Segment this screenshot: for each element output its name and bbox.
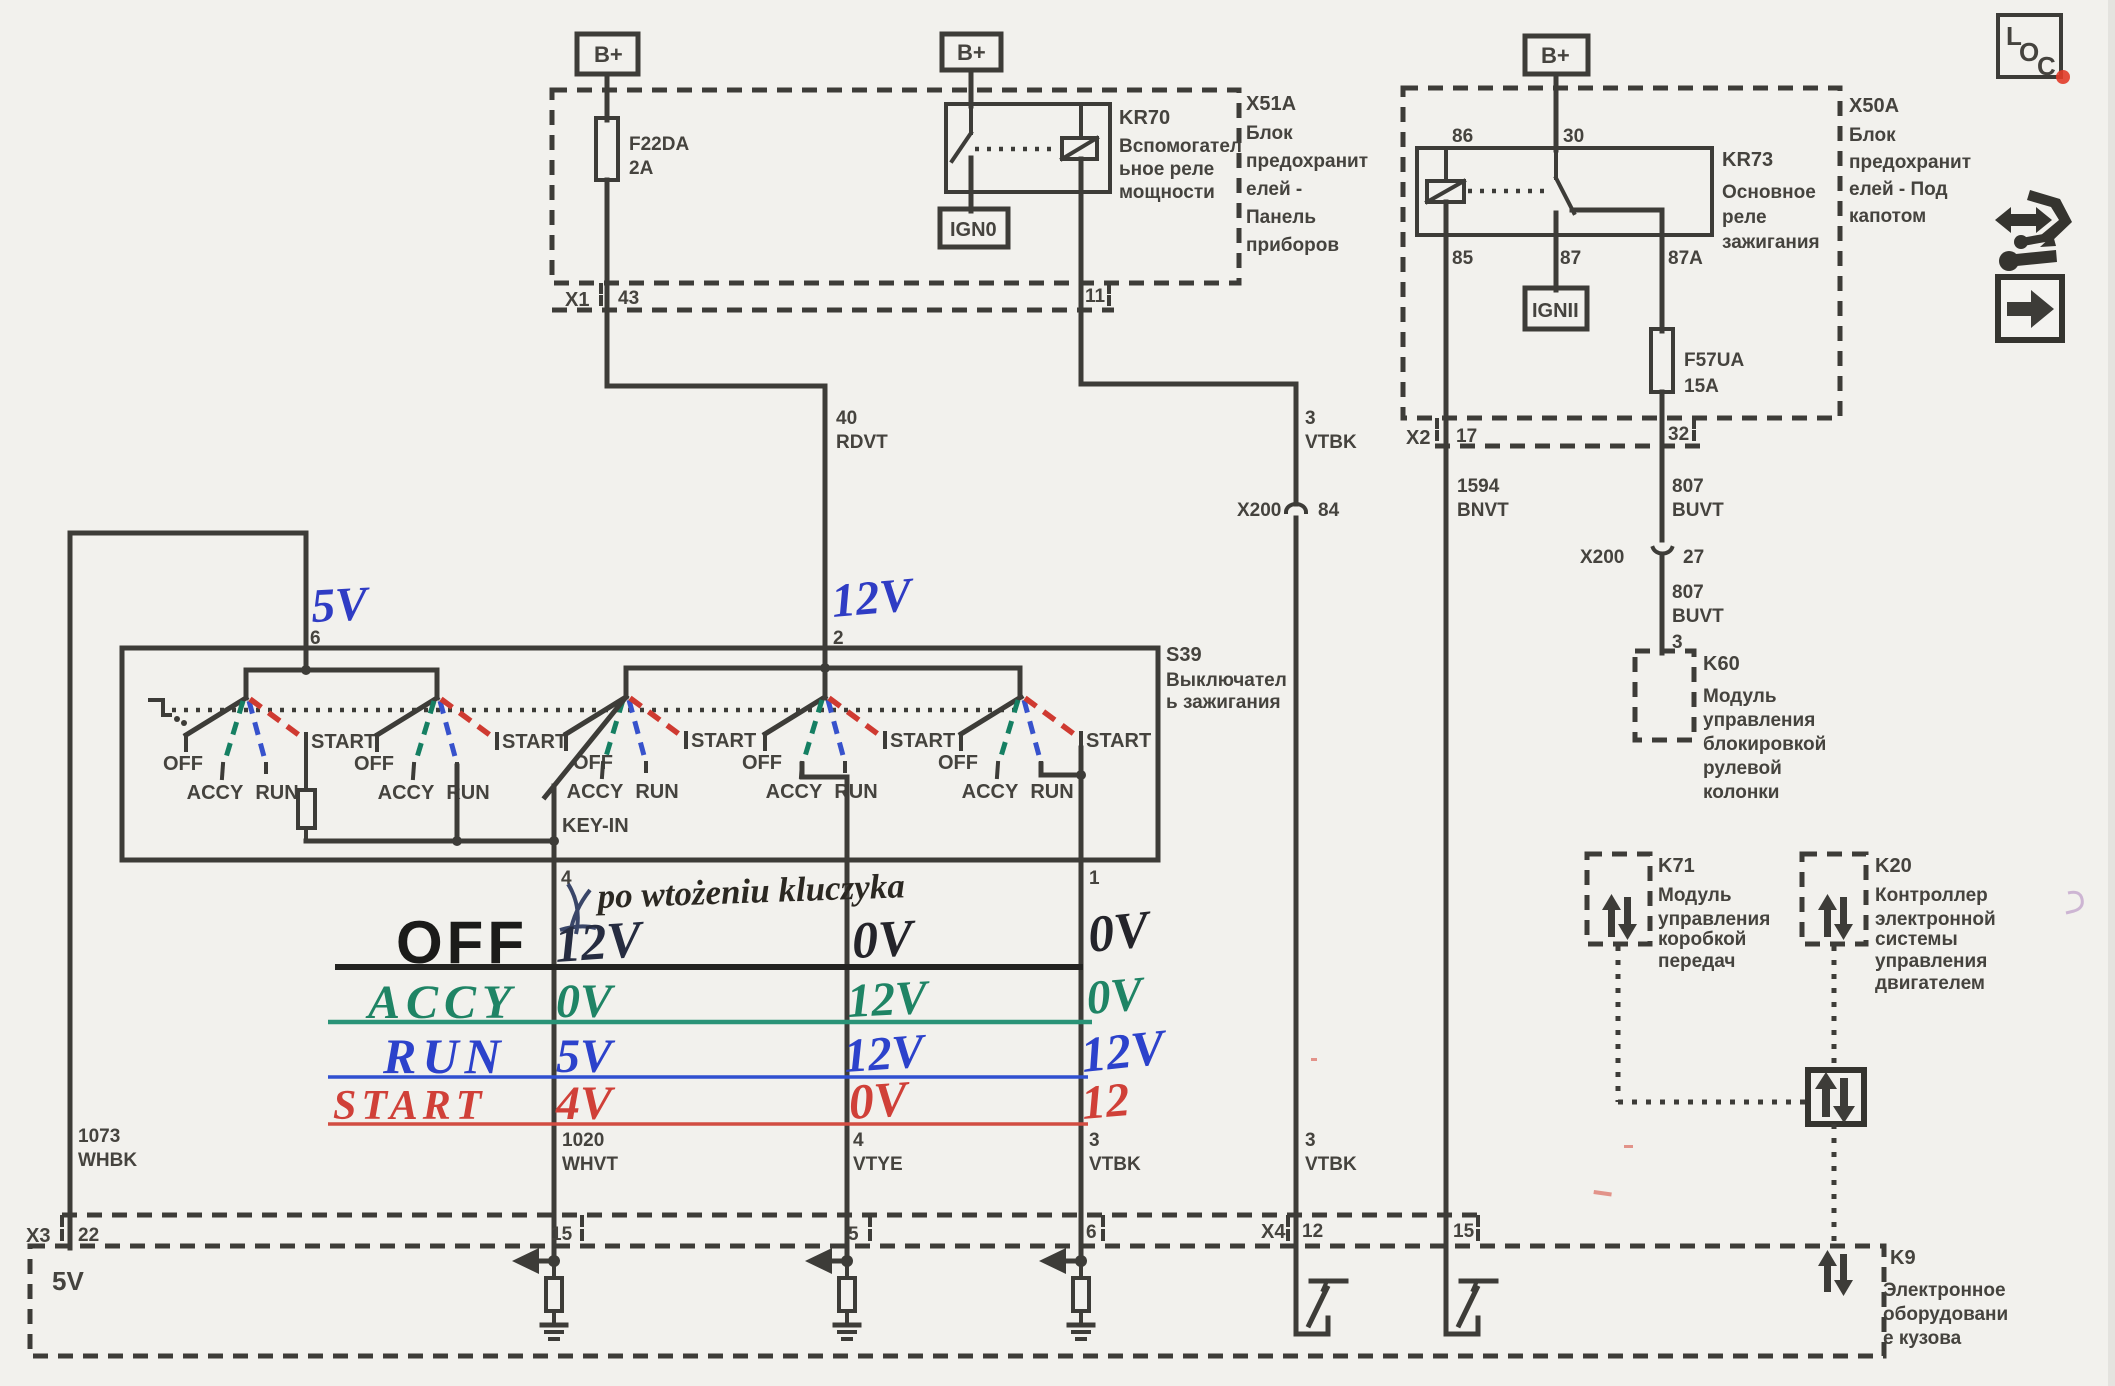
fuse block X50A (dashed enclosure) xyxy=(1403,88,1840,418)
svg-text:Вспомогател: Вспомогател xyxy=(1119,136,1242,157)
net label 1594 BNVT xyxy=(1457,476,1509,521)
fuse F57UA 15A xyxy=(1651,329,1744,397)
S39 contact START (red dashed) xyxy=(630,698,683,737)
net label 3 VTBK xyxy=(1305,408,1357,453)
power symbol B+ (feeds relay KR73) xyxy=(1525,36,1588,74)
svg-text:F22DA: F22DA xyxy=(629,134,689,155)
module K71 transmission control module (dashed box) xyxy=(1587,854,1770,972)
svg-text:RUN: RUN xyxy=(635,781,678,803)
svg-text:KR70: KR70 xyxy=(1119,107,1170,129)
connector X1 (dashed row) xyxy=(552,285,1114,311)
svg-text:0V: 0V xyxy=(1084,967,1148,1025)
svg-text:VTBK: VTBK xyxy=(1305,1154,1357,1175)
svg-text:15A: 15A xyxy=(1684,376,1719,397)
svg-text:START: START xyxy=(502,731,567,753)
svg-text:15: 15 xyxy=(1453,1221,1475,1242)
svg-text:0V: 0V xyxy=(847,1070,913,1130)
table row line OFF (black) xyxy=(335,964,1083,970)
table row line ACCY (green) xyxy=(328,1020,1092,1025)
svg-text:Электронное: Электронное xyxy=(1883,1280,2006,1301)
svg-text:11: 11 xyxy=(1085,286,1106,307)
svg-text:87: 87 xyxy=(1560,248,1581,269)
table row line RUN (blue) xyxy=(328,1075,1088,1079)
S39 wiper contact OFF (pivot x=437) xyxy=(377,698,437,735)
svg-text:ACCY: ACCY xyxy=(187,782,244,804)
svg-text:4V: 4V xyxy=(555,1077,616,1130)
wire S39 pin 6 up and left to connector X3 pin 22 (net 1073 WHBK / 5V) xyxy=(70,533,306,1248)
svg-text:B+: B+ xyxy=(957,40,986,65)
dotted data link K20 down xyxy=(1832,946,1837,1068)
svg-text:12: 12 xyxy=(1302,1221,1323,1242)
svg-text:B+: B+ xyxy=(594,42,623,67)
net label 40 RDVT xyxy=(836,408,888,453)
svg-text:елей -: елей - xyxy=(1246,179,1302,200)
svg-text:реле: реле xyxy=(1722,207,1767,228)
connector X2 (dashed row) xyxy=(1406,420,1700,449)
svg-text:0V: 0V xyxy=(851,910,919,970)
svg-text:START: START xyxy=(333,1083,486,1129)
svg-text:X4: X4 xyxy=(1261,1221,1286,1243)
data gateway box with arrows xyxy=(1808,1070,1864,1124)
wire pole 4 output down to S39 pin (net 4 VTYE) xyxy=(845,777,850,1262)
svg-text:X2: X2 xyxy=(1406,427,1430,449)
bracket tick X4-15 xyxy=(1476,1217,1480,1244)
svg-text:1020: 1020 xyxy=(562,1130,604,1151)
svg-text:RUN: RUN xyxy=(255,782,298,804)
junction pin6 feed xyxy=(301,665,311,675)
wire B+ to KR73 pin 30 xyxy=(1554,74,1559,150)
S39 contact ACCY (green dashed) xyxy=(415,701,434,764)
svg-text:Блок: Блок xyxy=(1246,123,1293,144)
power symbol B+ (feeds fuse F22DA) xyxy=(577,34,638,74)
svg-text:капотом: капотом xyxy=(1849,206,1926,227)
svg-text:F57UA: F57UA xyxy=(1684,350,1744,371)
svg-text:17: 17 xyxy=(1456,426,1477,447)
module K20 engine control module (dashed box) xyxy=(1802,854,1996,994)
net label 807 BUVT xyxy=(1672,476,1724,521)
switch to ground (K9 internal) at x=1446 xyxy=(1446,1248,1478,1334)
svg-text:BUVT: BUVT xyxy=(1672,500,1724,521)
net label 3 VTBK (S39 pin1 wire) xyxy=(1089,1130,1141,1175)
svg-text:12V: 12V xyxy=(846,971,933,1028)
svg-text:X200: X200 xyxy=(1580,547,1624,568)
svg-text:K71: K71 xyxy=(1658,855,1695,877)
net label 4 VTYE xyxy=(853,1130,903,1175)
relay KR73 (main ignition relay) xyxy=(1417,126,1820,269)
stray red marks (scan artifacts) xyxy=(1311,1058,1633,1196)
svg-text:рулевой: рулевой xyxy=(1703,758,1782,779)
svg-text:3: 3 xyxy=(1305,1130,1316,1151)
svg-text:VTBK: VTBK xyxy=(1305,432,1357,453)
svg-text:OFF: OFF xyxy=(938,752,978,774)
svg-text:RUN: RUN xyxy=(1030,781,1073,803)
ignition switch S39 box xyxy=(122,648,1158,860)
S39 bus bracket poles 3-5 (fed by pin 2) xyxy=(626,668,1020,697)
S39 bus bracket poles 1-2 (fed by pin 6) xyxy=(246,670,437,698)
S39 contact ACCY (green dashed) xyxy=(604,700,623,763)
S39 contact RUN (blue dashed) xyxy=(828,700,845,763)
wire X1-43 jog to ignition switch pin 2 (net 40 RDVT) xyxy=(607,380,825,698)
relay KR70 (auxiliary power relay) xyxy=(946,104,1242,203)
svg-text:START: START xyxy=(890,730,955,752)
data link arrows (K9 internal) xyxy=(1818,1250,1837,1292)
wire fuse F57UA to connector X2 pin 32 xyxy=(1660,392,1665,540)
dotted mechanical coupling line xyxy=(172,708,1018,713)
svg-text:Основное: Основное xyxy=(1722,182,1816,203)
svg-text:приборов: приборов xyxy=(1246,235,1339,256)
svg-text:2A: 2A xyxy=(629,158,654,179)
svg-text:RDVT: RDVT xyxy=(836,432,888,453)
S39 contact RUN (blue dashed) xyxy=(629,700,646,763)
S39 bottom bus to KEY-IN xyxy=(306,839,554,844)
svg-text:START: START xyxy=(1086,730,1151,752)
junction pin2 feed xyxy=(820,663,830,673)
svg-text:3: 3 xyxy=(1089,1130,1100,1151)
svg-text:40: 40 xyxy=(836,408,857,429)
svg-text:85: 85 xyxy=(1452,248,1474,269)
arrow tap (to body harness) at net WHVT xyxy=(538,1259,554,1264)
svg-text:87A: 87A xyxy=(1668,248,1703,269)
resistor (K9 internal) net VTYE xyxy=(845,1261,849,1278)
svg-text:Контроллер: Контроллер xyxy=(1875,885,1988,906)
wire X200-27 to module K60 pin 3 (net 807 BUVT) xyxy=(1660,556,1665,653)
inline connector X200 pin 84 xyxy=(1237,500,1340,521)
inline connector X200 pin 27 xyxy=(1580,547,1704,568)
svg-text:елей - Под: елей - Под xyxy=(1849,179,1948,200)
svg-text:управления: управления xyxy=(1658,909,1770,930)
bracket tick X3-15 xyxy=(580,1217,584,1244)
svg-text:START: START xyxy=(311,731,376,753)
svg-text:1073: 1073 xyxy=(78,1126,120,1147)
node IGN0 xyxy=(940,209,1008,247)
svg-text:ACCY: ACCY xyxy=(567,781,624,803)
ground net VTBK xyxy=(1079,1311,1083,1324)
wire X200-84 down to connector X4 pin 12 (net VTBK) xyxy=(1294,518,1299,1248)
svg-text:807: 807 xyxy=(1672,476,1704,497)
svg-text:ACCY: ACCY xyxy=(766,781,823,803)
svg-text:KEY-IN: KEY-IN xyxy=(562,815,629,837)
KEY-IN wiper blade of pole 3 xyxy=(545,697,626,797)
wire RUN contact pole2 down to bottom bus xyxy=(455,766,460,841)
S39 contact START (red dashed) xyxy=(250,699,303,738)
svg-text:30: 30 xyxy=(1563,126,1584,147)
key symbol (mechanical actuator) xyxy=(150,700,170,715)
svg-text:5V: 5V xyxy=(310,577,373,633)
wire KR70 switch to node IGN0 xyxy=(969,158,974,211)
net label 3 VTBK (right bus wire) xyxy=(1305,1130,1357,1175)
svg-text:86: 86 xyxy=(1452,126,1473,147)
wire X1-11 jog right then down (net 3 VTBK) xyxy=(1081,378,1296,504)
svg-text:Выключател: Выключател xyxy=(1166,670,1287,691)
svg-text:B+: B+ xyxy=(1541,43,1570,68)
bracket tick X4-12 xyxy=(1286,1217,1290,1244)
junction bottom bus / KEY-IN wire xyxy=(549,836,559,846)
svg-text:ACCY: ACCY xyxy=(378,782,435,804)
bracket RUN to START contact pole 5 xyxy=(1041,764,1081,775)
svg-text:43: 43 xyxy=(618,288,639,309)
svg-text:KR73: KR73 xyxy=(1722,149,1773,171)
svg-text:X1: X1 xyxy=(565,289,589,311)
fuse block X51A (dashed enclosure) xyxy=(552,90,1239,283)
module K9 body control module (dashed box) xyxy=(30,1246,1884,1356)
net label 1073 WHBK xyxy=(78,1126,137,1171)
wire KR73 coil pin 85 down to connector X2 pin 17 (net 1594 BNVT) xyxy=(1444,202,1449,1248)
arrow tap (to body harness) at net VTBK xyxy=(1065,1259,1081,1264)
svg-text:22: 22 xyxy=(78,1225,99,1246)
wire pole 5 START contact down to S39 pin 1 (net 3 VTBK) xyxy=(1079,748,1084,1262)
junction net WHVT xyxy=(548,1255,560,1267)
svg-text:5V: 5V xyxy=(52,1266,84,1296)
wire B+ to fuse F22DA xyxy=(605,74,610,120)
svg-text:po wtożeniu kluczyka: po wtożeniu kluczyka xyxy=(594,866,905,916)
svg-text:WHBK: WHBK xyxy=(78,1150,137,1171)
S39 wiper contact OFF (pivot x=626) xyxy=(566,697,626,734)
faint purple scan mark xyxy=(2066,892,2082,913)
net label 807 BUVT (lower) xyxy=(1672,582,1724,627)
svg-text:Модуль: Модуль xyxy=(1703,686,1777,707)
svg-text:RUN: RUN xyxy=(834,781,877,803)
svg-text:OFF: OFF xyxy=(163,753,203,775)
harness routing icon xyxy=(1995,190,2072,271)
svg-text:807: 807 xyxy=(1672,582,1704,603)
svg-text:5: 5 xyxy=(848,1224,859,1245)
svg-text:32: 32 xyxy=(1668,424,1689,445)
resistor (K9 internal) net WHVT xyxy=(552,1261,556,1278)
svg-text:оборудовани: оборудовани xyxy=(1883,1304,2008,1325)
junction pole5 output xyxy=(1076,770,1086,780)
module K60 steering column lock control module (dashed box) xyxy=(1635,651,1826,803)
resistor (K9 internal) net VTBK xyxy=(1079,1261,1083,1278)
svg-text:12: 12 xyxy=(1079,1073,1131,1130)
module K9 labels xyxy=(1883,1247,2008,1349)
svg-text:Панель: Панель xyxy=(1246,207,1316,228)
svg-text:зажигания: зажигания xyxy=(1722,232,1820,253)
svg-text:управления: управления xyxy=(1875,951,1987,972)
S39 contact ACCY (green dashed) xyxy=(224,701,243,764)
junction bottom bus / RUN pole2 xyxy=(452,836,462,846)
svg-text:RUN: RUN xyxy=(446,782,489,804)
S39 contact ACCY (green dashed) xyxy=(999,700,1018,763)
svg-text:Блок: Блок xyxy=(1849,125,1896,146)
svg-text:X200: X200 xyxy=(1237,500,1281,521)
junction net VTYE xyxy=(841,1255,853,1267)
resistor (internal, S39 pole1) xyxy=(298,790,315,828)
svg-text:управления: управления xyxy=(1703,710,1815,731)
svg-text:K9: K9 xyxy=(1890,1247,1916,1269)
bracket tick X3-5 xyxy=(868,1217,872,1244)
svg-text:WHVT: WHVT xyxy=(562,1154,618,1175)
svg-text:3: 3 xyxy=(1305,408,1316,429)
svg-text:системы: системы xyxy=(1875,929,1958,950)
table row line START (red) xyxy=(328,1122,1088,1126)
svg-text:K60: K60 xyxy=(1703,653,1740,675)
connector X3/X4 row upper dashed line xyxy=(62,1213,1481,1218)
wire resistor to bottom bus xyxy=(304,828,308,841)
S39 contact START (red dashed) xyxy=(1025,698,1078,737)
S39 wiper contact OFF (pivot x=825) xyxy=(765,697,825,734)
svg-text:IGN0: IGN0 xyxy=(950,219,997,241)
wire B+ to relay KR70 pin xyxy=(969,70,974,106)
LOC reference icon xyxy=(1998,15,2070,84)
bracket ACCY+RUN pole 4 xyxy=(802,764,847,777)
svg-text:ACCY: ACCY xyxy=(962,781,1019,803)
svg-text:электронной: электронной xyxy=(1875,909,1996,930)
svg-text:6: 6 xyxy=(1086,1222,1097,1243)
svg-text:передач: передач xyxy=(1658,951,1735,972)
scribbled-out mark above OFF value xyxy=(560,884,596,934)
svg-text:мощности: мощности xyxy=(1119,182,1215,203)
dotted data link K71 to gateway xyxy=(1618,1100,1806,1105)
svg-text:OFF: OFF xyxy=(742,752,782,774)
bracket tick X3-22 xyxy=(60,1217,64,1244)
svg-text:1594: 1594 xyxy=(1457,476,1500,497)
svg-text:Модуль: Модуль xyxy=(1658,885,1732,906)
svg-text:предохранит: предохранит xyxy=(1849,152,1971,173)
svg-text:27: 27 xyxy=(1683,547,1704,568)
svg-text:12V: 12V xyxy=(553,911,648,974)
svg-text:5V: 5V xyxy=(556,1030,616,1083)
bracket tick X3-6 xyxy=(1101,1217,1105,1244)
svg-text:BNVT: BNVT xyxy=(1457,500,1509,521)
svg-text:0V: 0V xyxy=(556,975,616,1028)
ground net WHVT xyxy=(552,1311,556,1324)
S39 wiper contact OFF (pivot x=1021) xyxy=(961,697,1021,734)
dotted data link K71 down xyxy=(1616,946,1621,1102)
svg-text:блокировкой: блокировкой xyxy=(1703,734,1826,755)
svg-text:ь зажигания: ь зажигания xyxy=(1166,692,1281,713)
svg-text:S39: S39 xyxy=(1166,644,1202,666)
dotted data link gateway down to K9 xyxy=(1832,1124,1837,1244)
svg-text:K20: K20 xyxy=(1875,855,1912,877)
node IGNII xyxy=(1525,288,1587,329)
S39 contact RUN (blue dashed) xyxy=(1024,700,1041,763)
svg-text:IGNII: IGNII xyxy=(1532,300,1579,322)
svg-text:START: START xyxy=(691,730,756,752)
svg-text:предохранит: предохранит xyxy=(1246,151,1368,172)
wire KEY-IN down to S39 pin 4 (net 1020 WHVT) xyxy=(552,786,557,1262)
S39 contact ACCY (green dashed) xyxy=(803,700,822,763)
svg-text:ьное реле: ьное реле xyxy=(1119,159,1214,180)
S39 contact START (red dashed) xyxy=(829,698,882,737)
S39 wiper contact OFF (pivot x=246) xyxy=(186,698,246,735)
svg-text:двигателем: двигателем xyxy=(1875,973,1985,994)
svg-text:15: 15 xyxy=(551,1224,573,1245)
junction net VTBK xyxy=(1075,1255,1087,1267)
svg-text:X50A: X50A xyxy=(1849,95,1899,117)
wire fuse F22DA to connector X1 pin 43 xyxy=(605,180,610,386)
scan edge shading (right margin) xyxy=(2108,0,2115,1386)
wire KR73 pin 87 to node IGNII xyxy=(1554,213,1559,290)
arrow tap (to body harness) at net VTYE xyxy=(831,1259,847,1264)
svg-text:4: 4 xyxy=(853,1130,864,1151)
S39 contact START (red dashed) xyxy=(441,699,494,738)
svg-text:84: 84 xyxy=(1318,500,1340,521)
svg-text:X51A: X51A xyxy=(1246,93,1296,115)
wire KR70 coil to connector X1 pin 11 (net VTBK) xyxy=(1079,159,1084,384)
S39 contact RUN (blue dashed) xyxy=(249,701,266,764)
svg-text:0V: 0V xyxy=(1085,900,1156,963)
ground net VTYE xyxy=(845,1311,849,1324)
svg-text:12V: 12V xyxy=(829,568,917,628)
svg-text:VTYE: VTYE xyxy=(853,1154,903,1175)
wire START contact pole1 down to resistor xyxy=(304,748,308,790)
svg-text:VTBK: VTBK xyxy=(1089,1154,1141,1175)
svg-text:колонки: колонки xyxy=(1703,782,1779,803)
svg-text:е кузова: е кузова xyxy=(1883,1328,1962,1349)
svg-text:1: 1 xyxy=(1089,868,1100,889)
svg-text:BUVT: BUVT xyxy=(1672,606,1724,627)
wire KR73 pin 87A to fuse F57UA xyxy=(1660,210,1665,331)
svg-text:коробкой: коробкой xyxy=(1658,929,1746,950)
page continuation icon (square with right arrow) xyxy=(1998,277,2062,340)
fuse F22DA 2A xyxy=(596,118,689,180)
power symbol B+ (feeds relay KR70) xyxy=(942,34,1001,70)
switch to ground (K9 internal) at x=1296 xyxy=(1296,1248,1328,1334)
svg-text:C: C xyxy=(2037,51,2056,81)
S39 contact RUN (blue dashed) xyxy=(440,701,457,764)
svg-text:OFF: OFF xyxy=(354,753,394,775)
net label 1020 WHVT xyxy=(562,1130,618,1175)
